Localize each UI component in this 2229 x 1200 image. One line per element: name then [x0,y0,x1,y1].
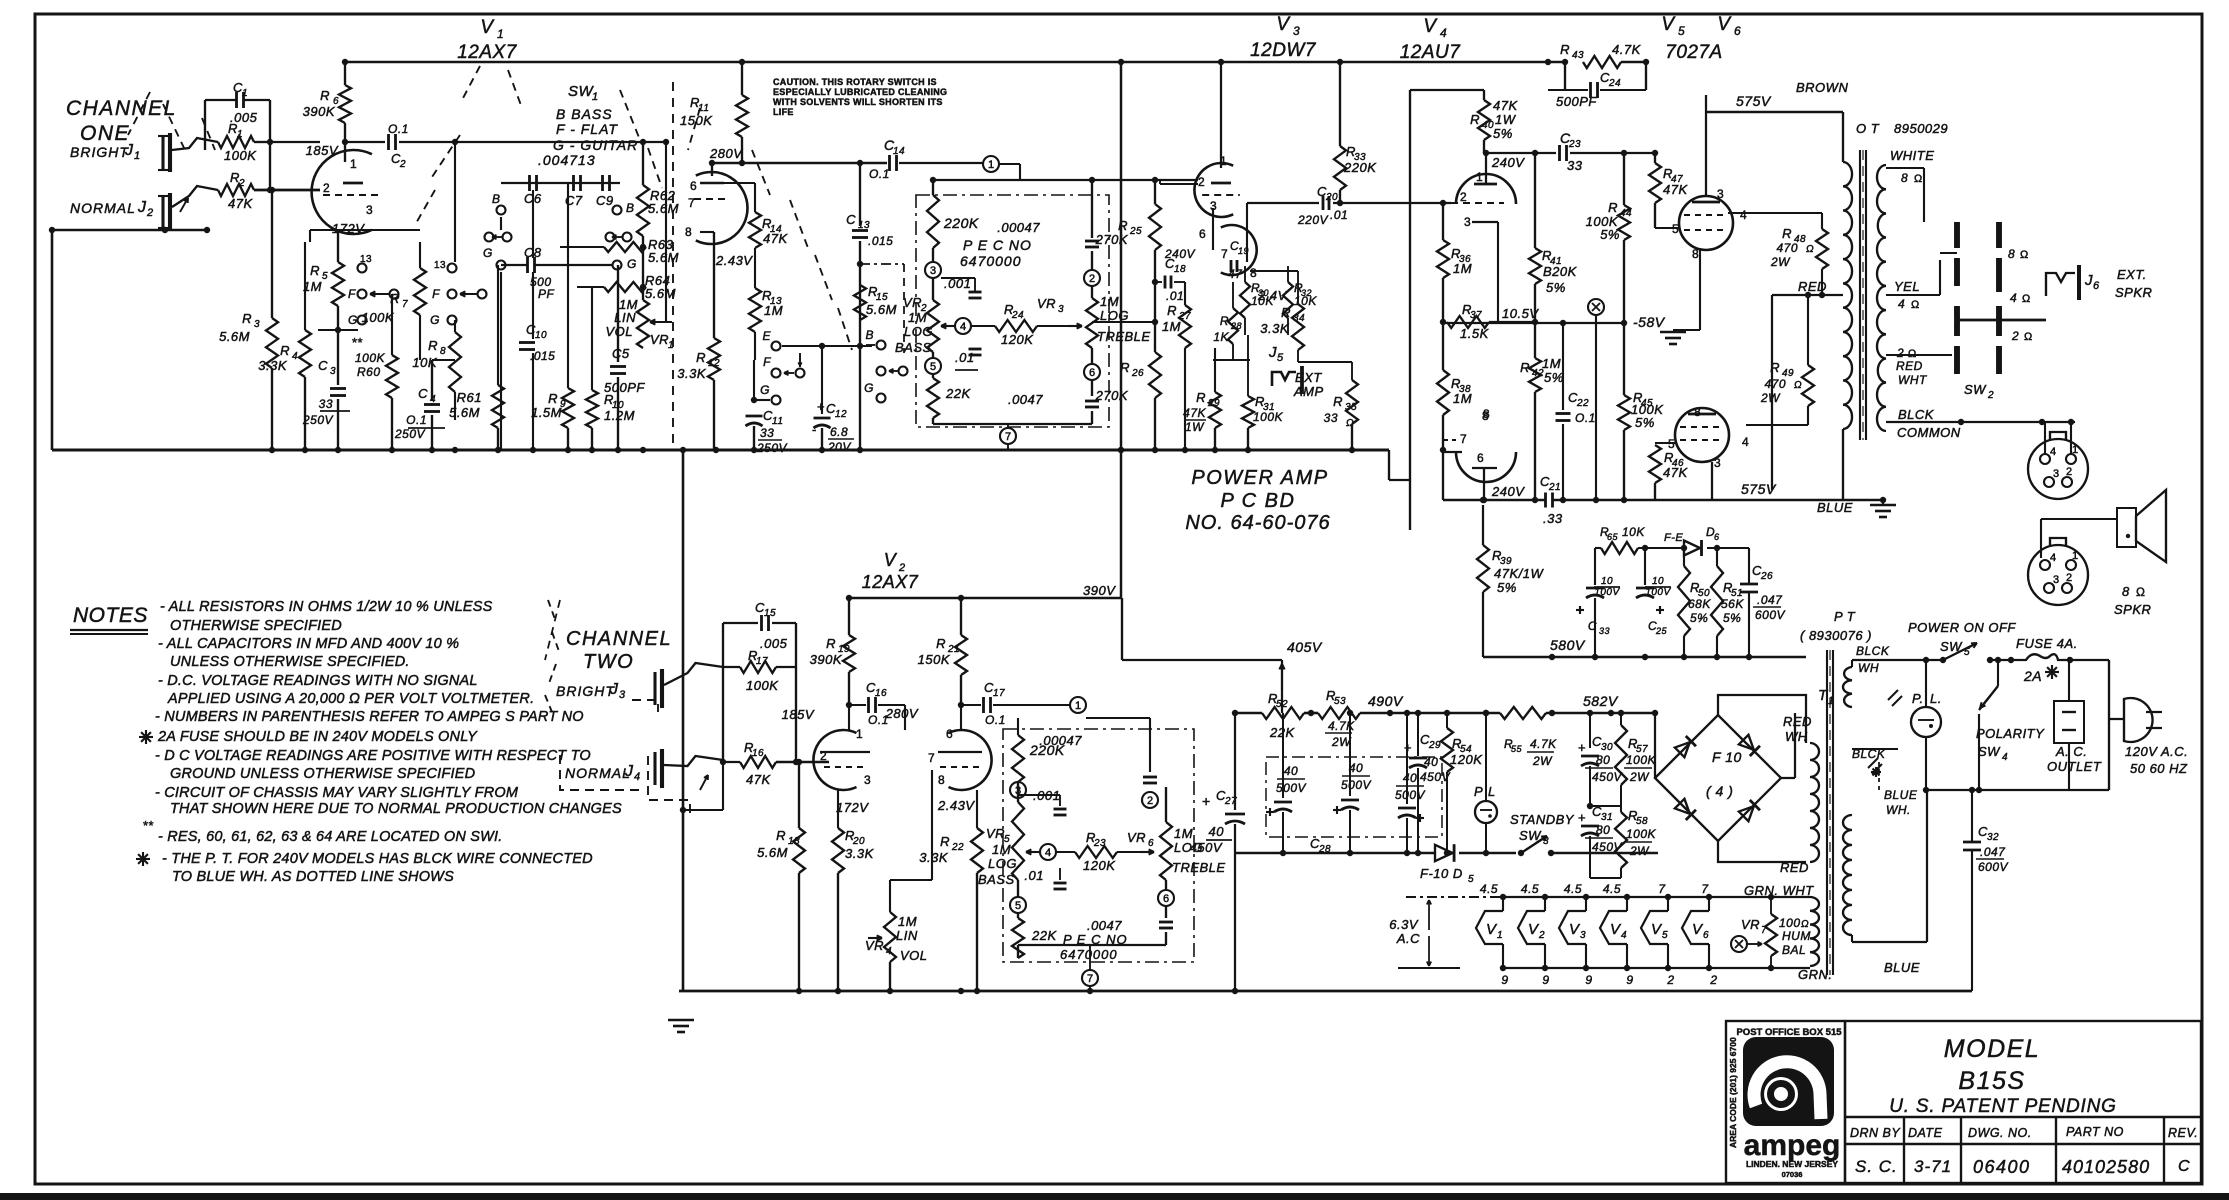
svg-text:5%: 5% [1690,611,1708,625]
svg-text:8950029: 8950029 [1894,121,1948,136]
svg-text:47K: 47K [1493,98,1518,113]
svg-text:B15S: B15S [1958,1067,2025,1095]
svg-text:6470000: 6470000 [960,253,1022,269]
svg-text:+: + [1404,740,1412,755]
svg-text:PART NO: PART NO [2066,1125,2124,1139]
svg-text:07036: 07036 [1782,1170,1803,1179]
svg-text:J: J [2084,272,2093,289]
svg-text:120K: 120K [1001,332,1034,347]
svg-text:1M: 1M [992,842,1011,857]
svg-text:R: R [242,311,252,326]
svg-text:UNLESS OTHERWISE SPECIFIED.: UNLESS OTHERWISE SPECIFIED. [170,654,410,670]
svg-text:6: 6 [690,179,697,193]
svg-text:450V: 450V [1420,770,1451,784]
svg-text:VR: VR [1037,296,1056,311]
svg-text:185V: 185V [782,707,815,722]
svg-text:P.: P. [1912,691,1924,706]
svg-text:VR: VR [650,332,669,347]
svg-text:LIFE: LIFE [773,107,794,117]
svg-text:OUTLET: OUTLET [2047,759,2102,774]
svg-text:AMP: AMP [1293,384,1324,399]
svg-text:47K/1W: 47K/1W [1494,566,1544,581]
svg-text:O.1: O.1 [869,167,890,181]
svg-text:BROWN: BROWN [1796,80,1848,95]
svg-text:6: 6 [1199,227,1206,241]
svg-text:450V: 450V [1190,840,1223,855]
svg-text:47: 47 [1228,267,1243,281]
svg-text:BRIGHT: BRIGHT [70,144,129,160]
svg-text:- RES, 60, 61, 62, 63 & 64 AR: - RES, 60, 61, 62, 63 & 64 ARE LOCATED O… [158,829,502,845]
svg-text:43: 43 [1572,50,1584,61]
svg-text:12AX7: 12AX7 [862,572,919,592]
svg-text:LINDEN. NEW JERSEY: LINDEN. NEW JERSEY [1746,1159,1838,1169]
svg-text:3: 3 [1058,304,1064,315]
svg-text:575V: 575V [1736,93,1772,109]
svg-text:1M: 1M [1162,319,1181,334]
svg-text:470: 470 [1764,377,1786,391]
svg-text:CHANNEL: CHANNEL [66,97,177,120]
svg-text:22K: 22K [945,386,971,401]
svg-text:100K: 100K [355,351,386,365]
svg-text:6: 6 [2093,280,2100,292]
svg-text:O.1: O.1 [388,122,409,136]
svg-text:44: 44 [1620,208,1632,219]
svg-text:4: 4 [1440,26,1447,40]
svg-text:280V: 280V [709,146,743,161]
svg-text:3: 3 [254,319,260,330]
svg-text:5: 5 [1277,352,1284,364]
svg-text:R: R [1281,305,1291,320]
svg-text:582V: 582V [1583,693,1619,709]
svg-text:50 60 HZ: 50 60 HZ [2130,761,2188,776]
svg-text:4: 4 [1621,930,1627,941]
svg-text:5.6M: 5.6M [648,250,679,265]
svg-text:F 10: F 10 [1712,749,1742,765]
svg-text:1M: 1M [908,310,927,325]
svg-text:R: R [548,391,558,406]
svg-text:4: 4 [2050,552,2057,564]
svg-text:P T: P T [1834,609,1856,624]
svg-text:2: 2 [399,159,406,170]
svg-text:U. S. PATENT PENDING: U. S. PATENT PENDING [1889,1096,2117,1117]
svg-text:.0047: .0047 [1087,918,1122,933]
svg-text:2W: 2W [1629,844,1650,858]
svg-text:3: 3 [1714,456,1721,470]
svg-text:-58V: -58V [1633,314,1666,330]
svg-text:BLUE: BLUE [1817,500,1853,515]
svg-text:R: R [428,338,438,353]
svg-text:VOL: VOL [605,324,633,339]
svg-text:4: 4 [2010,291,2017,305]
svg-text:2: 2 [1666,973,1674,987]
svg-text:5.6M: 5.6M [645,286,676,301]
svg-text:100K: 100K [1253,410,1284,424]
svg-text:18: 18 [1174,264,1186,275]
svg-text:220K: 220K [943,215,979,231]
svg-text:6470000: 6470000 [1060,947,1118,962]
svg-text:.00047: .00047 [997,220,1040,235]
svg-text:3: 3 [2053,468,2060,480]
svg-text:G: G [348,313,358,327]
svg-text:FUSE 4A.: FUSE 4A. [2016,636,2078,651]
svg-text:R: R [1196,390,1206,405]
svg-text:26: 26 [1760,571,1773,582]
svg-text:3: 3 [330,366,336,377]
svg-text:POLARITY: POLARITY [1976,726,2045,741]
svg-text:R60: R60 [357,365,381,379]
svg-text:580V: 580V [1550,637,1586,653]
svg-text:55: 55 [1511,744,1523,754]
svg-text:100K: 100K [1626,753,1657,767]
svg-text:53: 53 [1334,696,1346,707]
svg-text:22: 22 [1576,398,1589,409]
svg-text:BAL: BAL [1782,943,1806,957]
svg-text:220K: 220K [1343,160,1377,175]
svg-text:R61: R61 [457,390,482,405]
svg-text:J: J [609,681,619,698]
svg-text:Ω: Ω [1806,244,1814,255]
svg-text:E: E [762,329,771,343]
svg-text:10: 10 [1601,576,1613,587]
svg-text:1M: 1M [898,914,917,929]
svg-text:8: 8 [2008,247,2015,261]
svg-text:100V: 100V [1645,587,1671,598]
svg-text:BLCK: BLCK [1898,407,1935,422]
svg-text:33: 33 [1324,411,1338,425]
svg-text:500V: 500V [1341,778,1372,792]
svg-text:6: 6 [1714,532,1720,542]
svg-text:4: 4 [960,321,966,333]
svg-text:2: 2 [820,749,827,763]
svg-text:1: 1 [592,91,599,103]
svg-text:172V: 172V [836,800,869,815]
svg-text:12: 12 [835,409,847,420]
svg-text:SW: SW [1978,744,2001,759]
svg-text:6: 6 [1163,893,1169,905]
svg-text:O.1: O.1 [985,713,1006,727]
svg-text:120V A.C.: 120V A.C. [2125,744,2188,759]
svg-text:1.5K: 1.5K [1460,326,1490,341]
svg-text:6: 6 [1148,838,1154,849]
svg-text:4: 4 [886,946,892,957]
svg-text:06400: 06400 [1973,1157,2031,1177]
svg-text:4: 4 [1740,208,1747,222]
svg-text:6.8: 6.8 [830,425,848,439]
svg-text:5.6M: 5.6M [757,845,788,860]
svg-text:RED: RED [1896,359,1923,373]
svg-text:CHANNEL: CHANNEL [566,628,672,650]
svg-text:WH: WH [1858,661,1879,675]
svg-text:POWER AMP: POWER AMP [1191,467,1328,489]
svg-text:.01: .01 [1166,289,1184,303]
svg-text:1: 1 [497,27,504,41]
svg-text:R: R [696,350,706,365]
svg-text:ampeg: ampeg [1744,1129,1841,1162]
svg-text:R: R [310,263,320,278]
svg-text:C9: C9 [596,193,614,208]
svg-text:40: 40 [1209,824,1225,839]
svg-text:52: 52 [1276,699,1288,710]
svg-text:1: 1 [1497,930,1503,941]
svg-text:J: J [137,199,147,216]
svg-text:4: 4 [1045,847,1051,859]
svg-text:5%: 5% [1544,370,1564,385]
svg-text:.01: .01 [1330,208,1348,222]
svg-text:8: 8 [1483,407,1490,421]
svg-text:F-10 D: F-10 D [1420,866,1463,881]
svg-text:5.6M: 5.6M [449,405,480,420]
svg-text:GROUND UNLESS OTHERWISE: GROUND UNLESS OTHERWISE SPECIFIED [170,766,475,782]
svg-text:47K: 47K [1663,182,1688,197]
svg-text:1: 1 [134,150,141,162]
svg-text:7: 7 [1087,973,1093,985]
svg-text:RED: RED [1798,279,1827,294]
svg-text:PF: PF [538,287,555,301]
svg-text:29: 29 [1207,398,1220,409]
svg-text:APPLIED USING A 20,000 Ω: APPLIED USING A 20,000 Ω PER VOLT VOLTME… [167,691,534,707]
svg-text:C: C [1588,619,1597,633]
svg-text:NORMAL: NORMAL [70,200,136,216]
svg-text:V: V [1276,14,1291,35]
svg-text:8: 8 [2122,584,2130,599]
svg-text:4: 4 [2002,752,2008,763]
svg-text:100K: 100K [224,148,257,163]
svg-text:40: 40 [1424,755,1438,769]
svg-text:7: 7 [1005,431,1011,443]
svg-text:VOL: VOL [900,948,928,963]
svg-text:100K: 100K [746,678,779,693]
svg-text:**: ** [352,335,363,350]
svg-text:( 8930076 ): ( 8930076 ) [1800,628,1872,643]
svg-text:Ω: Ω [1911,299,1920,311]
svg-text:V: V [884,550,898,570]
svg-text:GRN. WHT: GRN. WHT [1744,883,1814,898]
svg-text:C: C [846,212,856,227]
svg-text:10: 10 [535,330,547,341]
svg-text:4.5: 4.5 [1480,882,1498,896]
svg-text:33: 33 [760,426,774,440]
svg-text:3.3K: 3.3K [677,366,707,381]
svg-text:5: 5 [930,361,936,373]
svg-text:F: F [763,355,771,369]
svg-text:VR: VR [1127,830,1146,845]
svg-text:68K: 68K [1688,597,1711,611]
svg-text:390K: 390K [303,104,336,119]
svg-text:390V: 390V [1083,583,1116,598]
svg-text:500PF: 500PF [1556,94,1597,109]
svg-text:5.6M: 5.6M [866,302,897,317]
svg-text:- THE P. T. FOR 240V MO: - THE P. T. FOR 240V MODELS HAS BLCK WIR… [162,851,593,867]
svg-text:56K: 56K [1721,597,1744,611]
svg-text:V: V [1661,14,1676,35]
svg-text:1: 1 [350,157,357,171]
svg-text:47K: 47K [746,772,771,787]
svg-text:5%: 5% [1497,580,1517,595]
svg-text:RED: RED [1783,714,1812,729]
svg-text:1: 1 [2072,444,2079,456]
svg-text:OTHERWISE SPECIFIED: OTHERWISE SPECIFIED [170,618,342,634]
svg-text:F-E: F-E [1664,532,1683,544]
svg-text:1K: 1K [1213,330,1229,344]
svg-text:B: B [492,192,501,206]
svg-text:6: 6 [1089,367,1095,379]
svg-text:A.C: A.C [1396,931,1420,946]
svg-text:80: 80 [1596,823,1610,837]
svg-text:2.43V: 2.43V [715,253,753,268]
svg-text:25: 25 [1655,626,1668,636]
svg-text:G: G [483,246,493,260]
svg-text:DRN BY: DRN BY [1850,1126,1901,1140]
svg-text:8: 8 [1250,266,1257,280]
svg-text:.0047: .0047 [1008,392,1043,407]
svg-text:SPKR: SPKR [2114,602,2151,617]
svg-text:185V: 185V [306,143,339,158]
svg-text:R: R [776,828,786,843]
svg-text:2: 2 [1198,175,1205,189]
svg-text:Ω: Ω [2024,331,2033,343]
svg-text:.01: .01 [1024,868,1044,883]
svg-text:B BASS: B BASS [556,106,613,122]
svg-text:O.1: O.1 [1575,411,1596,425]
svg-text:1W: 1W [1495,112,1517,127]
svg-text:Ω: Ω [1914,173,1923,185]
svg-text:- NUMBERS IN PARENTHESIS RE: - NUMBERS IN PARENTHESIS REFER TO AMPEG … [155,709,584,725]
svg-text:VR: VR [903,295,922,310]
svg-text:.005: .005 [760,636,788,651]
svg-text:20: 20 [1325,192,1338,203]
svg-text:G: G [760,383,770,397]
svg-text:22: 22 [951,842,964,853]
svg-text:1M: 1M [764,303,783,318]
svg-text:2: 2 [1709,973,1717,987]
svg-text:G - GUITAR: G - GUITAR [553,137,638,153]
svg-text:R: R [390,291,400,306]
svg-text:BLUE: BLUE [1884,788,1918,802]
svg-text:WH.: WH. [1886,803,1911,817]
svg-text:40: 40 [1403,771,1417,785]
svg-text:ESPECIALLY LUBRICATED CLEANING: ESPECIALLY LUBRICATED CLEANING [773,87,947,97]
svg-text:3: 3 [1293,24,1300,38]
svg-text:6.3V: 6.3V [1389,917,1419,932]
svg-text:29: 29 [1428,740,1441,751]
svg-text:CAUTION. THIS ROTARY SWITCH IS: CAUTION. THIS ROTARY SWITCH IS [773,77,937,87]
svg-text:WHITE: WHITE [1890,148,1934,163]
svg-text:WHT: WHT [1898,373,1928,387]
svg-text:AREA CODE (201) 925 6700: AREA CODE (201) 925 6700 [1728,1037,1738,1148]
svg-text:100V: 100V [1594,587,1620,598]
svg-text:3: 3 [1580,930,1586,941]
svg-text:DWG. NO.: DWG. NO. [1968,1126,2032,1140]
svg-text:DATE: DATE [1908,1126,1943,1140]
svg-text:WITH SOLVENTS WILL SHORTEN ITS: WITH SOLVENTS WILL SHORTEN ITS [773,97,943,107]
svg-text:390K: 390K [810,652,843,667]
svg-text:10: 10 [1652,576,1664,587]
svg-text:12AX7: 12AX7 [457,42,517,63]
svg-text:24: 24 [1608,78,1621,89]
svg-text:4.5: 4.5 [1564,882,1582,896]
svg-text:28: 28 [1230,321,1242,331]
svg-text:3: 3 [930,265,936,277]
svg-text:405V: 405V [1287,639,1323,655]
svg-text:10K: 10K [1251,294,1274,308]
svg-text:250V: 250V [302,413,334,427]
svg-text:R: R [826,636,836,651]
svg-text:Ω: Ω [2020,249,2029,261]
svg-text:600V: 600V [1755,608,1786,622]
svg-text:B: B [626,201,635,215]
svg-text:5: 5 [1678,24,1685,38]
svg-text:BRIGHT: BRIGHT [556,683,615,699]
svg-text:270K: 270K [1095,232,1129,247]
svg-text:2.43V: 2.43V [937,798,975,813]
svg-text:R: R [1470,112,1480,127]
svg-text:32: 32 [1987,832,1999,843]
svg-text:35: 35 [1345,402,1357,413]
svg-text:TREBLE: TREBLE [1097,329,1151,344]
svg-text:TWO: TWO [583,651,634,673]
svg-text:SW: SW [1519,828,1542,843]
svg-text:150K: 150K [918,652,951,667]
svg-text:C: C [2178,1158,2190,1175]
svg-text:250V: 250V [756,441,788,455]
svg-text:2: 2 [2011,329,2019,343]
svg-text:120K: 120K [1450,752,1483,767]
svg-text:5%: 5% [1635,415,1655,430]
svg-text:1: 1 [988,159,994,171]
svg-text:10.5V: 10.5V [1502,306,1539,321]
svg-text:24: 24 [1011,310,1024,321]
svg-text:2: 2 [1987,390,1994,401]
svg-text:34: 34 [1293,313,1305,324]
svg-text:BLCK: BLCK [1856,644,1890,658]
svg-text:2: 2 [323,181,330,195]
svg-text:14: 14 [893,146,905,157]
svg-text:R: R [1608,200,1618,215]
svg-text:Ω: Ω [2022,293,2031,305]
svg-text:BLUE: BLUE [1884,960,1920,975]
svg-text:RED: RED [1780,860,1809,875]
svg-text:YEL: YEL [1894,279,1920,294]
svg-text:R: R [1333,394,1343,409]
svg-text:C: C [418,386,428,401]
svg-text:4: 4 [2050,446,2057,458]
svg-text:8: 8 [1694,405,1701,419]
svg-text:.004713: .004713 [538,152,596,168]
svg-text:NORMAL: NORMAL [565,765,631,781]
svg-text:7: 7 [402,299,408,310]
svg-text:.015: .015 [868,234,893,248]
svg-text:VR: VR [986,826,1005,841]
svg-text:VR: VR [1741,917,1760,932]
svg-text:3.3K: 3.3K [919,850,949,865]
svg-text:SPKR: SPKR [2115,285,2152,300]
svg-text:1M: 1M [1174,826,1193,841]
svg-text:1: 1 [2072,550,2079,562]
svg-text:3.3K: 3.3K [845,846,875,861]
svg-text:9: 9 [1542,973,1549,987]
svg-text:4.5: 4.5 [1603,882,1621,896]
svg-text:F: F [348,287,356,301]
svg-text:280V: 280V [885,706,919,721]
svg-text:500V: 500V [1276,781,1307,795]
svg-text:- CIRCUIT OF CHASSIS MA: - CIRCUIT OF CHASSIS MAY VARY SLIGHTLY F… [155,785,519,801]
svg-text:12DW7: 12DW7 [1250,40,1317,61]
svg-text:9: 9 [1501,973,1508,987]
svg-text:1M: 1M [1100,294,1119,309]
svg-text:1: 1 [1476,170,1483,184]
svg-text:4: 4 [634,771,641,783]
svg-text:240V: 240V [1491,484,1525,499]
